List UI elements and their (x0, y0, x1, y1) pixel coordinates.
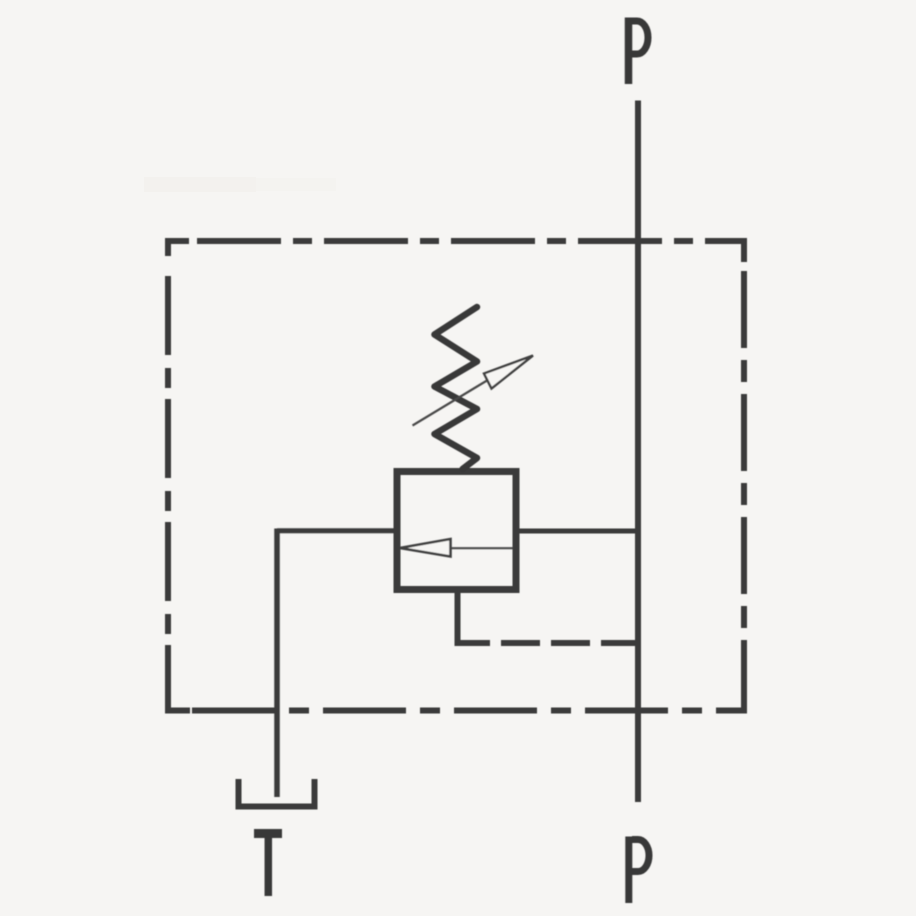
adjustment arrow open head (484, 356, 533, 389)
flow arrow open head (pointing left) (400, 539, 451, 557)
valve body square (397, 472, 516, 590)
enclosure boundary right edge (dash-dot) (741, 271, 747, 710)
adjustment arrow shaft (diagonal through spring) (413, 381, 488, 426)
spring (zigzag, adjustable) (435, 307, 478, 469)
pilot line corner solid piece (455, 640, 491, 646)
label P (bottom port) (629, 837, 649, 904)
label T (tank port) (254, 834, 282, 897)
pilot line dashed to P (501, 640, 638, 646)
enclosure boundary left edge (dash-dot) (165, 276, 171, 710)
pilot line vertical from valve bottom (455, 586, 461, 643)
enclosure boundary top-right corner (723, 241, 744, 262)
tank symbol (239, 779, 315, 807)
label P (top port) (629, 18, 649, 85)
wire inlet P to valve (right side) (516, 529, 638, 534)
wire port P vertical line (635, 101, 641, 803)
enclosure boundary bottom edge (dash-dot) (192, 708, 741, 714)
wire valve outlet to tank branch (left side) (277, 528, 397, 533)
flow arrow shaft inside valve (451, 547, 513, 549)
enclosure boundary bottom-right corner (722, 690, 744, 711)
enclosure boundary bottom-left corner (168, 694, 190, 711)
wire tank branch vertical (274, 529, 280, 798)
enclosure boundary top-left corner (168, 241, 189, 256)
enclosure boundary top edge (dash-dot) (197, 238, 741, 244)
